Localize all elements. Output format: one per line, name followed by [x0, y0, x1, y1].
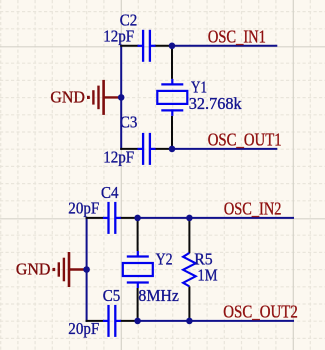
svg-text:8MHz: 8MHz [138, 286, 179, 305]
svg-text:20pF: 20pF [68, 198, 99, 217]
capacitor C4 plates [107, 202, 109, 234]
wire: OSC_IN2 net [138, 217, 294, 219]
capacitor C3 plates [142, 133, 144, 165]
svg-text:GND: GND [16, 259, 51, 278]
capacitor C3 pins [138, 148, 144, 150]
svg-text:20pF: 20pF [68, 319, 99, 338]
crystal Y2 body [123, 263, 153, 276]
svg-text:12pF: 12pF [103, 148, 134, 167]
wire: R5 down to junction [188, 286, 190, 321]
wire: top-left to C4 [86, 217, 104, 219]
svg-text:C3: C3 [120, 113, 137, 132]
junction: R5 top node [186, 215, 193, 222]
wire: C2 to junction [155, 45, 173, 47]
svg-text:OSC_IN2: OSC_IN2 [224, 199, 282, 219]
wire: C4 to junction [120, 217, 138, 219]
svg-text:32.768k: 32.768k [189, 94, 242, 113]
junction: OSC_IN1 node [169, 43, 176, 50]
svg-text:C4: C4 [101, 183, 119, 202]
resistor R5 zigzag [183, 253, 196, 287]
wire: junction down to Y2 [137, 218, 139, 251]
svg-text:OSC_OUT2: OSC_OUT2 [223, 302, 297, 322]
capacitor C2 plates [142, 30, 144, 62]
wire: junction down to R5 [188, 218, 190, 253]
ground symbol GND1 [104, 96, 122, 98]
wire: C1 left vertical (OSC gnd rail) [120, 45, 122, 150]
capacitor C5 plates [107, 305, 109, 337]
svg-text:GND: GND [50, 87, 85, 106]
crystal Y1 body [157, 91, 187, 104]
wire: OSC_OUT1 net [172, 148, 277, 150]
svg-text:C5: C5 [103, 286, 121, 305]
wire: Y1 down to junction [171, 116, 173, 149]
svg-text:OSC_IN1: OSC_IN1 [208, 27, 266, 47]
wire: bottom-left to C5 [86, 320, 104, 322]
capacitor C4 pins [103, 217, 109, 219]
junction: R5 bottom node [186, 318, 193, 325]
capacitor C5 pins [103, 320, 109, 322]
crystal Y2 pins [137, 251, 139, 258]
svg-text:Y2: Y2 [156, 249, 173, 268]
wire: top-left to C2 [120, 45, 138, 47]
junction: GND2 node [83, 266, 90, 273]
wire: C3 to junction [155, 148, 173, 150]
svg-text:1M: 1M [198, 265, 218, 284]
wire: C5 to junction [120, 320, 138, 322]
junction: Y2 bottom node [134, 318, 141, 325]
wire: Y2 down to junction [137, 288, 139, 321]
junction: GND1 node [118, 94, 125, 101]
crystal Y1 plates [161, 83, 183, 85]
ground symbol GND2 [69, 268, 87, 270]
crystal Y2 plates [127, 255, 149, 257]
wire: OSC_OUT2 net [138, 320, 294, 322]
wire: bottom-left to C3 [120, 148, 138, 150]
junction: Y2 top node [134, 215, 141, 222]
wire: junction down to Y1 [171, 46, 173, 79]
svg-text:OSC_OUT1: OSC_OUT1 [208, 130, 282, 150]
junction: OSC_OUT1 node [169, 146, 176, 153]
svg-text:12pF: 12pF [103, 26, 134, 45]
wire: OSC_IN1 net [172, 45, 277, 47]
wire: C2 left vertical (gnd rail 2) [86, 217, 88, 322]
capacitor C2 pins [138, 45, 144, 47]
crystal Y1 pins [171, 79, 173, 86]
